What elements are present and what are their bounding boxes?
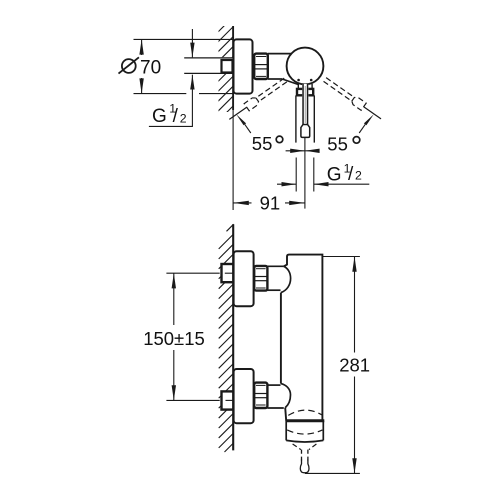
wall face line (side view)	[232, 26, 234, 110]
right 55° dimension arrow at dashed line	[364, 114, 374, 125]
150±15 dimension line with arrows	[173, 273, 175, 325]
G1/2 outlet left arrow	[277, 183, 296, 185]
wall face extension line for 91 dim	[232, 110, 234, 210]
inlet pipe in wall	[184, 58, 233, 74]
svg-text:G: G	[152, 106, 167, 127]
hose nipple	[300, 450, 309, 473]
lower union cone and dome	[267, 384, 290, 408]
svg-text:/: /	[348, 164, 354, 185]
hidden inner dome (dashed arc above collar)	[288, 410, 323, 415]
left 55° dimension arrow at dashed line	[236, 114, 246, 125]
svg-text:2: 2	[180, 112, 187, 126]
Ø70 dimension line with arrows	[141, 39, 143, 55]
281 bottom extension line	[305, 472, 360, 474]
in-wall pipe fitting	[222, 60, 233, 73]
handle tip	[301, 125, 310, 138]
G1/2 outlet label	[327, 161, 362, 185]
281 top extension line	[322, 256, 360, 258]
svg-text:/: /	[173, 106, 179, 127]
upper hex union nut	[254, 266, 267, 291]
svg-text:G: G	[327, 164, 342, 185]
281 dimension line with arrows	[354, 257, 356, 353]
lower hex union nut	[254, 383, 267, 408]
lower supply centerline	[226, 399, 233, 401]
wall face line (front view)	[232, 224, 234, 450]
left 55° vertex arrow at centerline	[286, 150, 305, 152]
handle rod	[302, 84, 308, 125]
screw dots on sphere	[297, 79, 300, 82]
upper union cone and dome	[267, 266, 290, 292]
hex connection nut (side view)	[254, 54, 268, 79]
lower in-wall fitting	[222, 391, 234, 409]
valve body sphere (circle)	[287, 48, 324, 85]
left 55° angle line (solid extension)	[229, 107, 246, 119]
valve body cylinder (side view)	[268, 54, 298, 85]
outlet collar	[286, 421, 325, 442]
handle vertical centerline	[304, 138, 306, 209]
Ø70 label (custom diameter symbol)	[122, 59, 136, 73]
upper in-wall fitting	[222, 264, 234, 282]
right swung handle (dashed, 55°)	[322, 76, 383, 123]
collar nut below sphere	[297, 84, 313, 95]
G1/2 outlet extension lines	[295, 158, 297, 192]
hidden outlet cone below collar (dashed)	[293, 444, 301, 450]
svg-text:55: 55	[252, 133, 273, 154]
shower outlet pipe (behind handle)	[295, 95, 297, 142]
wall hatching (front view)	[219, 224, 234, 452]
svg-text:70: 70	[140, 57, 161, 78]
svg-text:150±15: 150±15	[143, 328, 205, 349]
svg-text:91: 91	[260, 193, 281, 214]
left swung handle (dashed, 55°)	[227, 76, 288, 123]
G1/2 inlet arrows (above/below pipe)	[191, 29, 193, 57]
150±15 lower extension line	[166, 399, 219, 401]
svg-text:281: 281	[339, 355, 370, 376]
mixer body outline	[281, 255, 323, 421]
right 55° vertex arrow at centerline	[305, 150, 318, 152]
svg-text:2: 2	[355, 168, 362, 182]
upper supply centerline	[225, 272, 233, 274]
lower escutcheon	[234, 369, 254, 423]
escutcheon flange (side view)	[234, 39, 253, 93]
upper escutcheon	[234, 251, 254, 306]
Ø70 extension lines	[134, 38, 234, 40]
G1/2 inlet label with underline	[149, 102, 193, 128]
G1/2 outlet right arrow with label underline	[314, 183, 370, 185]
91 dimension line	[233, 202, 251, 204]
svg-text:55: 55	[327, 133, 348, 154]
inlet pipe centerline	[203, 65, 246, 67]
hidden inner cone (dashed arc in collar)	[287, 430, 322, 434]
150±15 upper extension line	[166, 272, 219, 274]
right 55° angle line (solid extension)	[364, 107, 381, 119]
